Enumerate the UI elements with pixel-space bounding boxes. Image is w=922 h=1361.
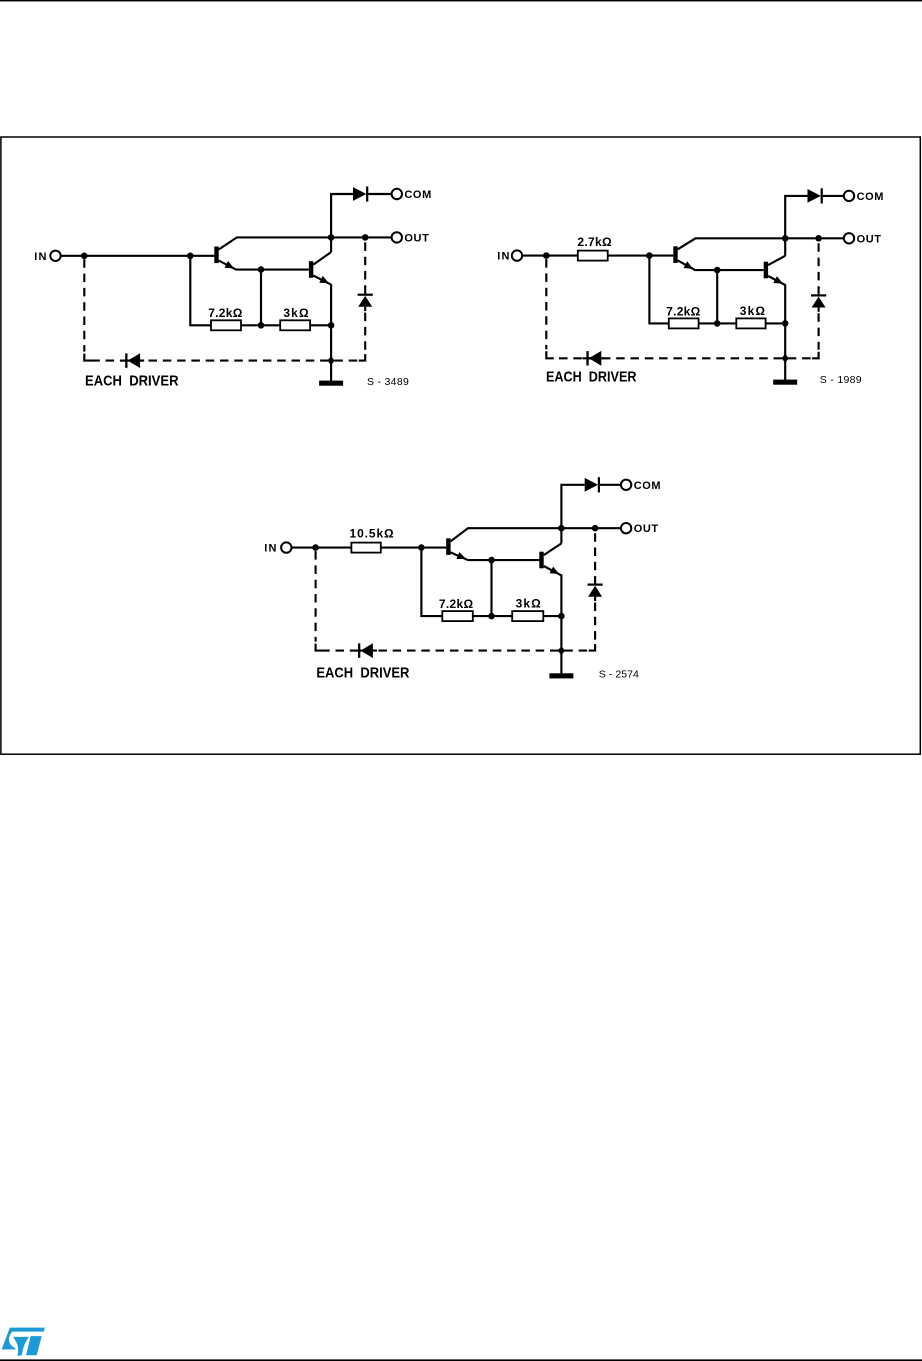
circuit 3: ground — [549, 673, 573, 678]
circuit 1: node feedback junction — [187, 253, 194, 260]
circuit 2: dashed rail right corner — [812, 352, 819, 359]
circuit 2: terminal COM — [844, 191, 854, 201]
circuit 2: diode D-free — [818, 287, 820, 294]
circuit 3: node feedback junction — [418, 544, 425, 551]
circuit 3: wire trunk to COM — [561, 485, 584, 544]
circuit 1: terminal COM — [392, 189, 402, 199]
circuit 1: wire Q2 collector — [313, 252, 331, 265]
circuit 1: wire Q1 emitter — [219, 261, 309, 270]
circuit 1: dashed wire OUT to D-free — [364, 242, 366, 287]
circuit 2: resistor R1 7.2k — [669, 318, 699, 328]
circuit 3: node row/trunk — [558, 613, 565, 620]
circuit 1: Q2 emitter arrow — [319, 276, 329, 283]
ST logo — [2, 1328, 45, 1356]
svg-text:2.7kΩ: 2.7kΩ — [577, 235, 612, 249]
circuit 3: resistor R1 7.2k — [442, 611, 473, 621]
circuit 2: resistor R-in 2.7kΩ — [578, 251, 608, 261]
svg-text:S - 1989: S - 1989 — [820, 374, 862, 386]
circuit 3: diode D-rail — [358, 643, 360, 657]
svg-text:3kΩ: 3kΩ — [283, 306, 309, 320]
circuit 3: dashed base-emitter rail — [322, 650, 587, 652]
circuit 2: dashed rail corner — [546, 351, 554, 358]
circuit 3: wire R2 to trunk — [543, 615, 561, 617]
circuit 1: wire IN to Q1 base — [61, 255, 215, 257]
circuit 3: transistor Q1 base bar — [446, 538, 450, 555]
circuit 3: diode D-free — [594, 577, 596, 584]
circuit 1: wire OUT — [331, 236, 392, 238]
circuit 3: dashed wire D-free to rail — [594, 603, 596, 643]
circuit 2: node row/trunk — [782, 320, 789, 327]
circuit 2: node trunk/OUT — [782, 235, 789, 242]
circuit 3: node input/dash junction — [312, 544, 319, 551]
circuit 1: node trunk/OUT — [328, 234, 335, 241]
circuit 1: dashed base-emitter rail — [90, 360, 357, 362]
circuit 2: wire Q2 collector — [768, 256, 785, 265]
svg-text:EACH DRIVER: EACH DRIVER — [85, 373, 179, 389]
svg-text:IN: IN — [497, 251, 510, 263]
svg-text:OUT: OUT — [404, 232, 429, 244]
circuit 3: resistor R-in 10.5kΩ — [351, 543, 380, 553]
circuit 2: transistor Q1 base bar — [673, 246, 677, 263]
circuit 2: dashed wire input to rail — [545, 259, 547, 349]
svg-text:OUT: OUT — [634, 523, 659, 535]
circuit 2: wire diode to COM terminal — [823, 195, 844, 197]
circuit 2: wire emitter node to row — [716, 270, 718, 323]
circuit 2: wire Q1 collector — [678, 238, 786, 249]
svg-text:S - 3489: S - 3489 — [367, 376, 409, 388]
circuit 3: Q2 emitter arrow — [550, 567, 560, 574]
circuit 3: wire R-in to Q1 base — [381, 547, 446, 549]
circuit 2: node row middle — [714, 320, 721, 327]
circuit 1: diode D-rail — [125, 353, 127, 367]
circuit 2: wire R2 to trunk — [766, 322, 786, 324]
circuit 3: wire R1 to R2 — [473, 615, 512, 617]
bottom rule — [0, 1359, 922, 1361]
circuit 3: transistor Q2 base bar — [539, 552, 543, 569]
circuit 2: wire Q1 emitter — [678, 260, 764, 270]
circuit 1: dashed rail right corner — [359, 354, 366, 361]
circuit 2: terminal IN — [512, 250, 522, 260]
circuit 3: terminal IN — [281, 542, 291, 552]
circuit 1: node emitter/R junction — [258, 266, 265, 273]
circuit 3: wire Q2 collector — [544, 543, 562, 555]
circuit 1: wire feedback to R1 — [190, 256, 211, 325]
circuit 1: diode D-free — [364, 287, 366, 294]
circuit 3: node rail/trunk — [558, 646, 565, 655]
circuit 1: wire R2 to trunk — [310, 324, 331, 326]
circuit 3: dashed rail corner — [316, 644, 324, 651]
circuit 2: dashed base-emitter rail — [552, 357, 810, 359]
circuit 3: resistor R2 3k — [512, 611, 543, 621]
circuit 3: wire IN to R-in — [292, 547, 352, 549]
circuit 1: dashed wire input to rail — [83, 259, 85, 351]
circuit 1: terminal IN — [50, 251, 60, 261]
svg-text:7.2kΩ: 7.2kΩ — [666, 304, 701, 318]
svg-text:IN: IN — [264, 543, 277, 555]
circuit 3: node trunk/OUT — [558, 525, 565, 532]
circuit 1: dashed rail corner — [84, 354, 92, 361]
circuit 3: dashed wire input to rail — [315, 551, 317, 642]
svg-text:COM: COM — [404, 189, 431, 201]
circuit 1: node input/dash junction — [81, 253, 88, 260]
svg-text:COM: COM — [634, 480, 661, 492]
circuit 2: wire R1 to R2 — [699, 322, 737, 324]
circuit 3: node emitter/R junction — [488, 557, 495, 564]
circuit 1: resistor R2 3k — [280, 320, 310, 330]
circuit 3: dashed rail right corner — [589, 644, 596, 651]
circuit 1: Q1 emitter arrow — [225, 261, 235, 268]
circuit 2: dashed wire OUT to D-free — [818, 243, 820, 288]
circuit 3: terminal COM — [621, 480, 631, 490]
circuit 2: wire trunk to COM — [785, 196, 807, 256]
svg-text:COM: COM — [857, 191, 884, 203]
circuit 2: node input/dash junction — [543, 252, 550, 259]
circuit 1: ground — [319, 381, 343, 386]
circuit 1: node row/trunk — [328, 322, 335, 329]
svg-text:7.2kΩ: 7.2kΩ — [439, 597, 474, 611]
circuit 1: node row middle — [258, 322, 265, 329]
circuit 2: node feedback junction — [646, 252, 653, 259]
circuit 2: diode D-COM — [808, 189, 821, 203]
circuit 2: dashed wire D-free to rail — [818, 313, 820, 350]
circuit 1: wire Q1 collector — [219, 237, 331, 249]
circuit 2: diode D-rail — [586, 351, 588, 365]
circuit 3: node OUT/diode branch — [592, 525, 599, 532]
circuit 1: wire Q2 emitter and trunk to ground — [313, 276, 331, 383]
circuit 2: node emitter/R junction — [714, 267, 721, 274]
circuit 3: wire feedback to R1 — [421, 548, 442, 617]
circuit 3: dashed wire OUT to D-free — [594, 533, 596, 577]
circuit 2: wire R-in to Q1 base — [608, 255, 674, 257]
circuit 3: wire OUT — [561, 527, 621, 529]
circuit 1: terminal OUT — [392, 232, 402, 242]
circuit 2: Q2 emitter arrow — [773, 276, 783, 283]
circuit 1: dashed wire D-free to rail — [364, 313, 366, 353]
circuit 2: ground — [773, 380, 797, 385]
circuit 3: Q1 emitter arrow — [456, 552, 466, 559]
circuit 1: diode D-COM — [353, 187, 366, 201]
svg-text:EACH DRIVER: EACH DRIVER — [546, 370, 637, 386]
schematic frame — [1, 137, 920, 754]
circuit 2: node rail/trunk — [782, 354, 789, 363]
circuit 2: wire feedback to R1 — [649, 256, 668, 324]
circuit 2: wire OUT — [785, 237, 844, 239]
circuit 3: wire Q2 emitter and trunk to ground — [544, 566, 562, 675]
circuit 2: wire Q2 emitter and trunk to ground — [768, 276, 785, 382]
circuit 3: node row middle — [488, 613, 495, 620]
top rule — [0, 0, 922, 1]
circuit 2: transistor Q2 base bar — [764, 262, 768, 279]
svg-text:OUT: OUT — [857, 233, 882, 245]
circuit 3: wire Q1 collector — [451, 528, 562, 541]
svg-text:3kΩ: 3kΩ — [740, 304, 766, 318]
svg-text:3kΩ: 3kΩ — [516, 597, 542, 611]
circuit 1: wire diode to COM terminal — [368, 193, 391, 195]
circuit 2: resistor R2 3k — [736, 318, 765, 328]
circuit 2: Q1 emitter arrow — [684, 261, 694, 269]
circuit 3: wire emitter node to row — [490, 560, 492, 616]
circuit 3: diode D-COM — [585, 478, 598, 492]
svg-text:10.5kΩ: 10.5kΩ — [350, 526, 395, 540]
svg-text:7.2kΩ: 7.2kΩ — [208, 306, 243, 320]
circuit 2: node OUT/diode branch — [815, 235, 822, 242]
circuit 2: terminal OUT — [844, 233, 854, 243]
circuit 3: wire diode to COM terminal — [600, 484, 621, 486]
svg-text:EACH DRIVER: EACH DRIVER — [316, 666, 409, 682]
circuit 1: wire trunk to COM — [331, 194, 353, 252]
circuit 3: wire Q1 emitter — [451, 552, 540, 560]
circuit 1: wire emitter node to row — [260, 270, 262, 326]
svg-text:S - 2574: S - 2574 — [599, 668, 639, 680]
circuit 2: wire IN to R-in — [522, 255, 578, 257]
circuit 1: node rail/trunk — [328, 356, 335, 365]
circuit 1: resistor R1 7.2k — [211, 320, 241, 330]
circuit 1: transistor Q1 base bar — [214, 247, 218, 264]
circuit 1: transistor Q2 base bar — [309, 261, 313, 278]
svg-text:IN: IN — [34, 251, 47, 263]
circuit 1: node OUT/diode branch — [362, 234, 369, 241]
circuit 1: wire R1 to R2 — [241, 324, 280, 326]
circuit 3: terminal OUT — [621, 523, 631, 533]
